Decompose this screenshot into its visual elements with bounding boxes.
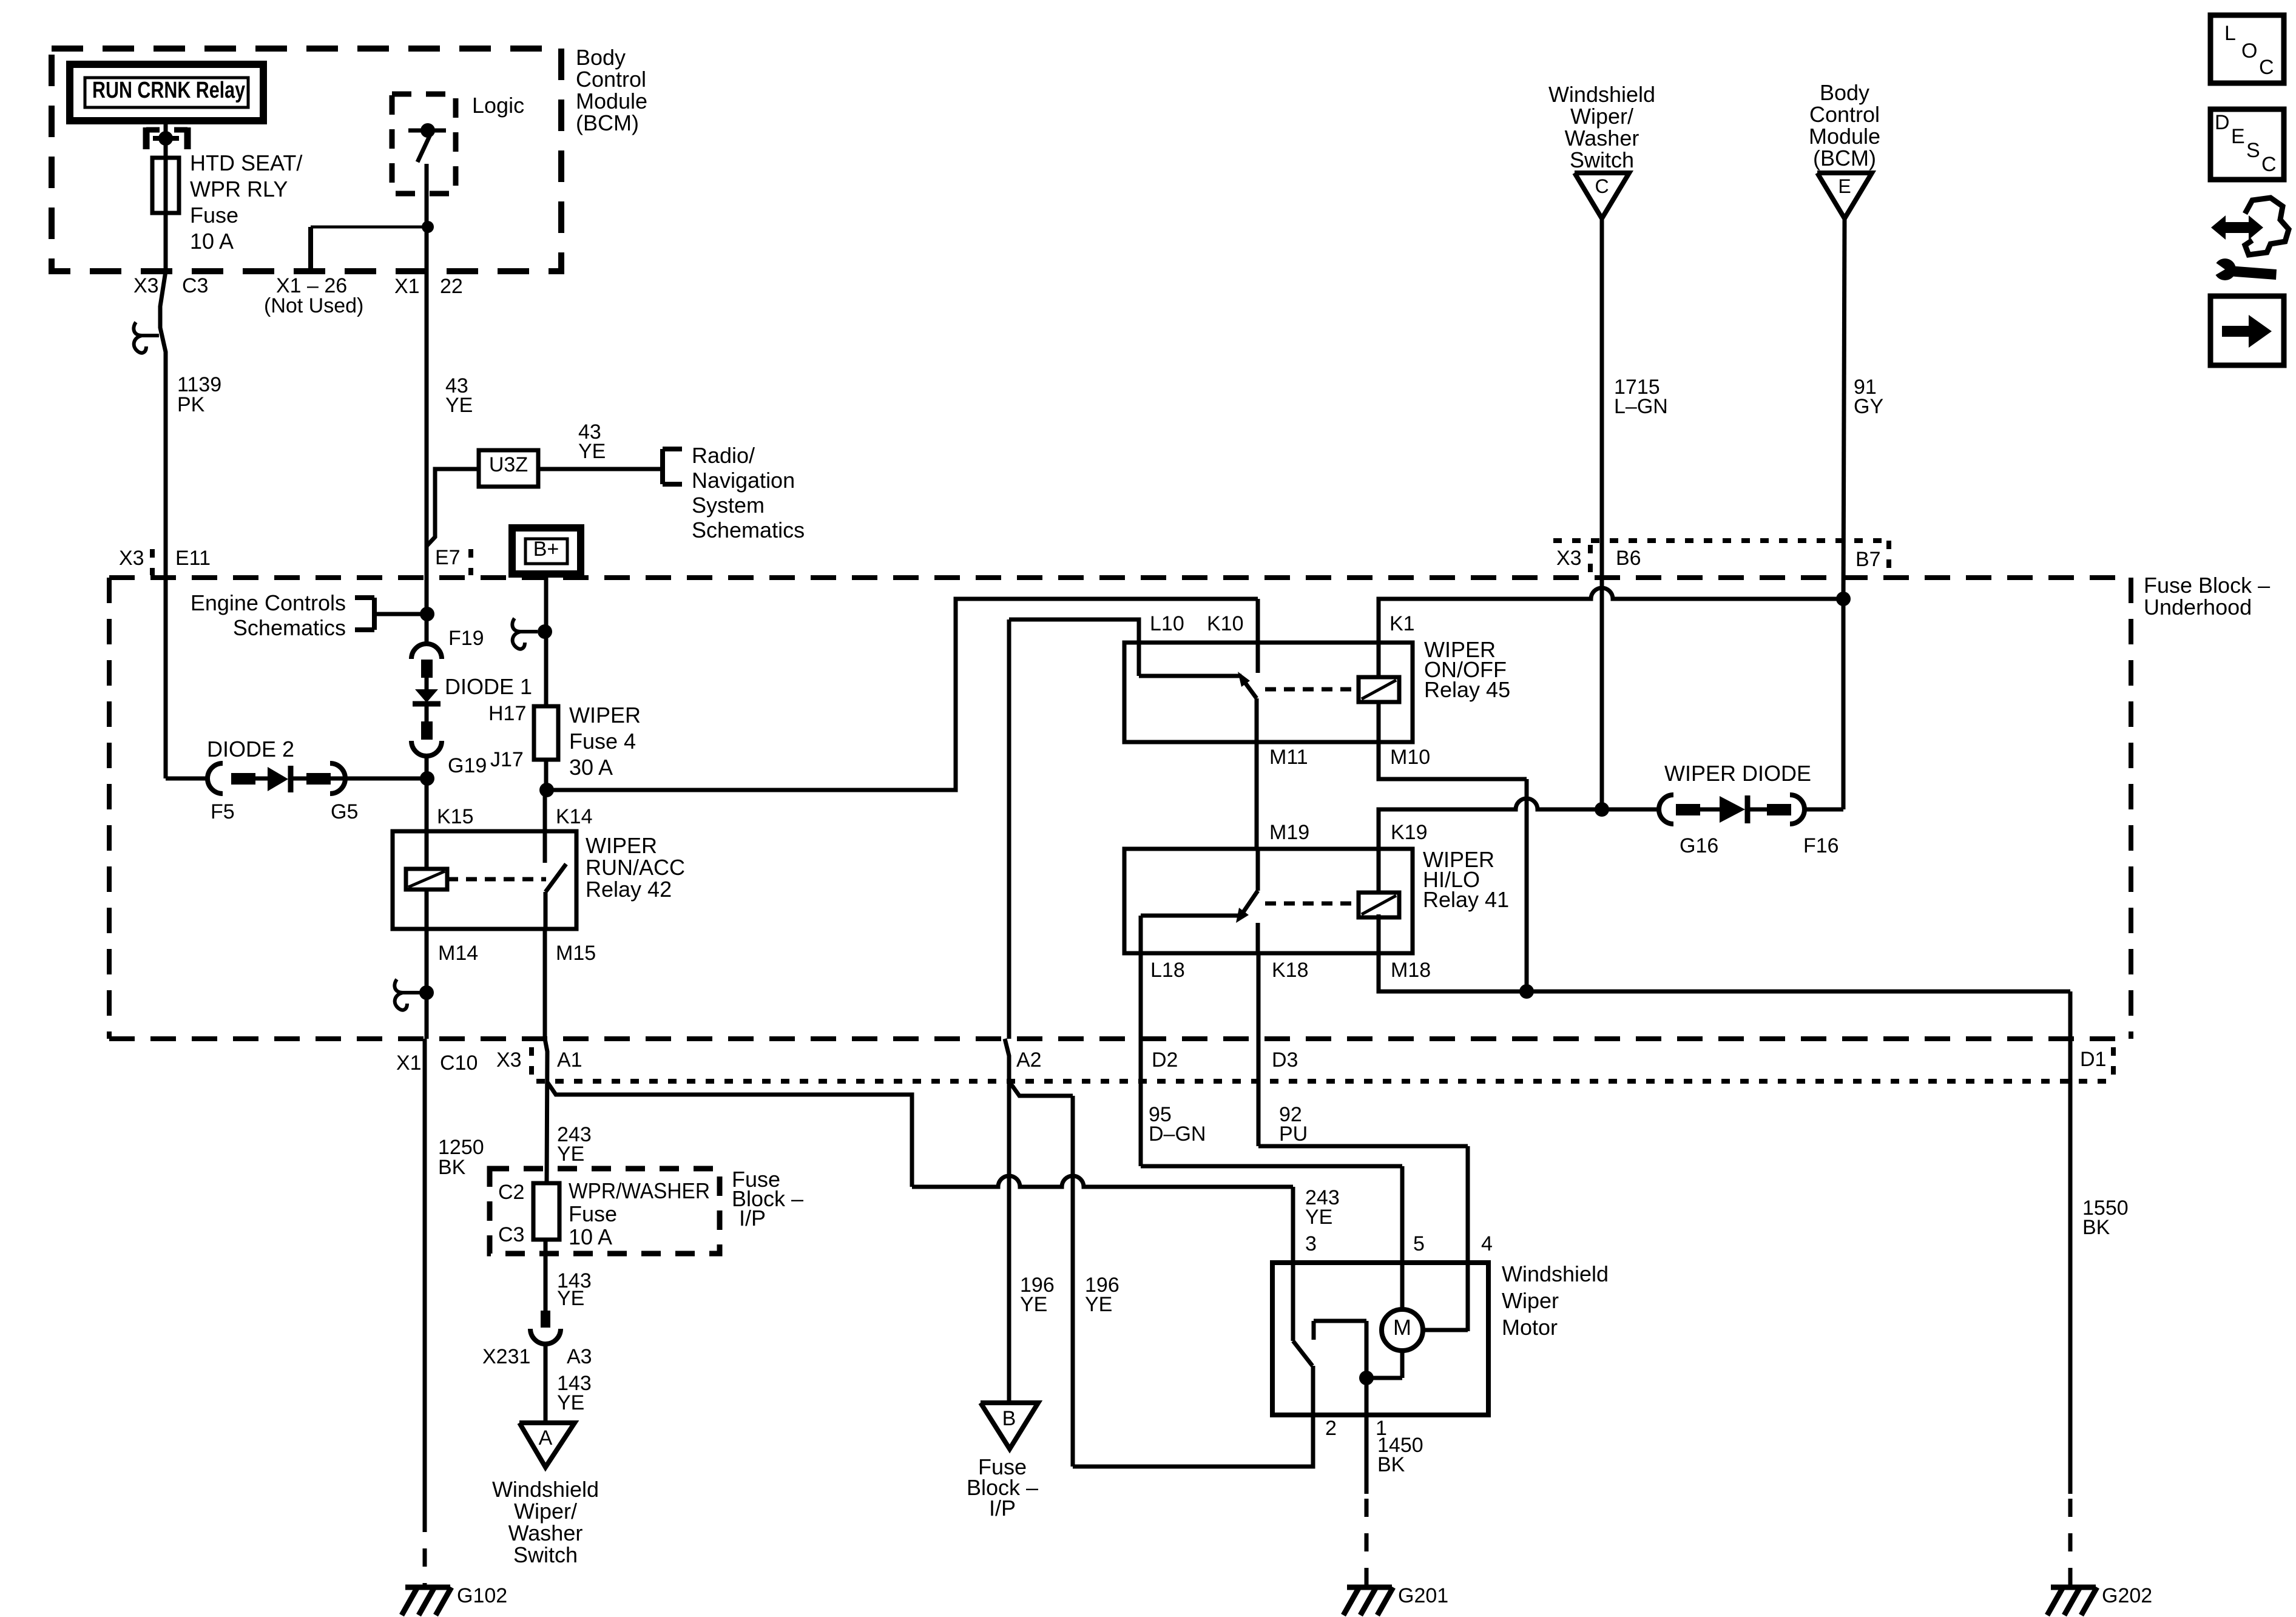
- svg-text:F5: F5: [211, 800, 235, 823]
- svg-text:Relay 42: Relay 42: [586, 877, 672, 902]
- svg-text:S: S: [2246, 139, 2260, 162]
- svg-text:B: B: [1002, 1407, 1016, 1430]
- svg-text:RUN CRNK Relay: RUN CRNK Relay: [92, 78, 245, 103]
- svg-text:K10: K10: [1207, 612, 1244, 635]
- svg-text:(Not Used): (Not Used): [264, 294, 363, 317]
- svg-text:System: System: [692, 493, 765, 518]
- svg-text:F19: F19: [448, 627, 484, 650]
- svg-text:M: M: [1393, 1315, 1411, 1340]
- svg-text:Schematics: Schematics: [233, 615, 346, 640]
- svg-text:E: E: [1838, 175, 1851, 197]
- svg-text:10 A: 10 A: [190, 229, 234, 254]
- svg-text:L10: L10: [1150, 612, 1184, 635]
- svg-text:Fuse: Fuse: [569, 1201, 617, 1226]
- svg-text:5: 5: [1413, 1232, 1425, 1255]
- svg-text:Underhood: Underhood: [2144, 595, 2252, 619]
- svg-text:Fuse: Fuse: [190, 203, 238, 228]
- svg-text:X3: X3: [1556, 547, 1582, 570]
- svg-text:30 A: 30 A: [569, 755, 613, 780]
- svg-text:Relay 41: Relay 41: [1423, 887, 1509, 912]
- svg-text:Relay 45: Relay 45: [1424, 677, 1510, 702]
- svg-text:K14: K14: [556, 805, 593, 828]
- svg-text:O: O: [2241, 39, 2257, 62]
- svg-text:G201: G201: [1398, 1584, 1448, 1607]
- svg-text:Fuse Block –: Fuse Block –: [2144, 573, 2270, 598]
- svg-text:D: D: [2215, 111, 2230, 134]
- svg-text:HTD SEAT/: HTD SEAT/: [190, 150, 302, 175]
- svg-text:G16: G16: [1680, 834, 1718, 857]
- svg-text:YE: YE: [1020, 1293, 1047, 1316]
- svg-text:B7: B7: [1855, 548, 1881, 571]
- svg-text:2: 2: [1325, 1417, 1337, 1440]
- svg-text:YE: YE: [578, 440, 606, 463]
- svg-text:B6: B6: [1616, 547, 1641, 570]
- svg-text:X231: X231: [482, 1345, 530, 1368]
- svg-text:Windshield: Windshield: [492, 1477, 599, 1502]
- svg-text:K15: K15: [437, 805, 474, 828]
- svg-text:G102: G102: [457, 1584, 507, 1607]
- svg-text:WPR/WASHER: WPR/WASHER: [569, 1178, 710, 1203]
- svg-text:WIPER DIODE: WIPER DIODE: [1664, 761, 1811, 786]
- svg-text:X1: X1: [396, 1052, 422, 1075]
- svg-text:B+: B+: [533, 538, 559, 561]
- svg-text:M10: M10: [1390, 746, 1430, 769]
- svg-text:Wiper: Wiper: [1502, 1288, 1559, 1313]
- svg-text:X3: X3: [133, 274, 159, 297]
- svg-text:J17: J17: [490, 748, 524, 771]
- svg-text:Motor: Motor: [1502, 1315, 1558, 1340]
- svg-text:D1: D1: [2080, 1048, 2106, 1071]
- svg-text:GY: GY: [1854, 395, 1883, 418]
- svg-text:I/P: I/P: [739, 1206, 766, 1230]
- svg-text:H17: H17: [488, 702, 526, 725]
- svg-text:U3Z: U3Z: [489, 453, 528, 476]
- svg-text:Radio/: Radio/: [692, 443, 755, 468]
- svg-text:Switch: Switch: [1570, 147, 1634, 172]
- svg-text:(BCM): (BCM): [1813, 146, 1876, 170]
- svg-text:PU: PU: [1279, 1122, 1308, 1146]
- svg-text:I/P: I/P: [989, 1496, 1016, 1521]
- svg-text:Body: Body: [576, 45, 626, 70]
- svg-text:3: 3: [1305, 1232, 1317, 1255]
- svg-text:D3: D3: [1272, 1048, 1298, 1072]
- svg-text:K1: K1: [1389, 612, 1415, 635]
- svg-text:Module: Module: [1809, 124, 1880, 149]
- svg-text:WIPER: WIPER: [586, 833, 657, 858]
- svg-text:C: C: [2261, 153, 2277, 176]
- svg-text:C2: C2: [498, 1181, 524, 1204]
- svg-text:C: C: [2259, 56, 2274, 79]
- svg-text:X3: X3: [119, 547, 144, 570]
- svg-text:YE: YE: [557, 1143, 584, 1166]
- svg-text:M19: M19: [1269, 821, 1309, 844]
- svg-text:Wiper/: Wiper/: [514, 1499, 577, 1524]
- svg-text:YE: YE: [557, 1287, 584, 1310]
- svg-text:WIPER: WIPER: [569, 703, 641, 727]
- svg-text:Washer: Washer: [1565, 126, 1639, 150]
- svg-text:(BCM): (BCM): [576, 110, 639, 135]
- svg-text:G5: G5: [331, 800, 358, 823]
- svg-text:C3: C3: [498, 1223, 524, 1246]
- svg-text:Windshield: Windshield: [1502, 1261, 1609, 1286]
- svg-text:Navigation: Navigation: [692, 468, 795, 493]
- svg-text:Switch: Switch: [513, 1542, 578, 1567]
- svg-text:C10: C10: [440, 1052, 478, 1075]
- svg-text:Windshield: Windshield: [1548, 82, 1655, 107]
- svg-text:YE: YE: [557, 1391, 584, 1414]
- svg-text:4: 4: [1481, 1232, 1493, 1255]
- svg-text:Engine Controls: Engine Controls: [191, 590, 346, 615]
- svg-text:F16: F16: [1803, 834, 1839, 857]
- svg-text:A3: A3: [567, 1345, 592, 1368]
- svg-text:C3: C3: [182, 274, 208, 297]
- svg-text:E11: E11: [175, 547, 211, 570]
- svg-text:Fuse 4: Fuse 4: [569, 729, 636, 754]
- svg-text:K19: K19: [1391, 821, 1428, 844]
- svg-text:DIODE 1: DIODE 1: [445, 674, 532, 699]
- svg-text:A1: A1: [557, 1048, 582, 1072]
- svg-text:C: C: [1595, 175, 1609, 197]
- svg-text:Module: Module: [576, 89, 647, 113]
- svg-text:M14: M14: [438, 942, 478, 965]
- svg-text:M11: M11: [1269, 746, 1308, 769]
- svg-text:M18: M18: [1391, 959, 1431, 982]
- svg-text:Body: Body: [1820, 80, 1869, 105]
- svg-text:Control: Control: [576, 67, 646, 92]
- svg-text:D2: D2: [1152, 1048, 1178, 1072]
- svg-text:A: A: [539, 1426, 553, 1450]
- svg-text:G202: G202: [2102, 1584, 2152, 1607]
- svg-text:L18: L18: [1150, 959, 1185, 982]
- svg-text:Washer: Washer: [508, 1521, 583, 1545]
- svg-text:YE: YE: [1085, 1293, 1112, 1316]
- svg-text:WPR RLY: WPR RLY: [190, 177, 288, 201]
- svg-text:X1: X1: [394, 275, 420, 298]
- svg-text:BK: BK: [438, 1156, 466, 1179]
- svg-text:L: L: [2224, 22, 2236, 45]
- svg-text:10 A: 10 A: [569, 1224, 612, 1249]
- svg-text:BK: BK: [1377, 1453, 1405, 1476]
- svg-text:YE: YE: [445, 394, 473, 417]
- svg-text:BK: BK: [2082, 1216, 2110, 1239]
- svg-text:RUN/ACC: RUN/ACC: [586, 855, 685, 880]
- svg-text:Control: Control: [1809, 102, 1880, 127]
- svg-text:E7: E7: [435, 546, 461, 569]
- svg-text:D–GN: D–GN: [1149, 1122, 1206, 1146]
- svg-text:E: E: [2231, 125, 2245, 148]
- svg-text:Logic: Logic: [472, 93, 524, 118]
- svg-text:YE: YE: [1305, 1206, 1332, 1229]
- svg-text:K18: K18: [1272, 959, 1309, 982]
- svg-text:22: 22: [440, 275, 463, 298]
- svg-text:PK: PK: [177, 393, 205, 416]
- svg-text:G19: G19: [448, 754, 487, 777]
- svg-text:DIODE 2: DIODE 2: [207, 737, 294, 761]
- svg-text:Wiper/: Wiper/: [1570, 104, 1633, 129]
- svg-text:X3: X3: [496, 1048, 522, 1072]
- svg-text:Schematics: Schematics: [692, 518, 805, 542]
- svg-text:A2: A2: [1016, 1048, 1042, 1072]
- svg-text:M15: M15: [556, 942, 596, 965]
- svg-text:L–GN: L–GN: [1614, 395, 1668, 418]
